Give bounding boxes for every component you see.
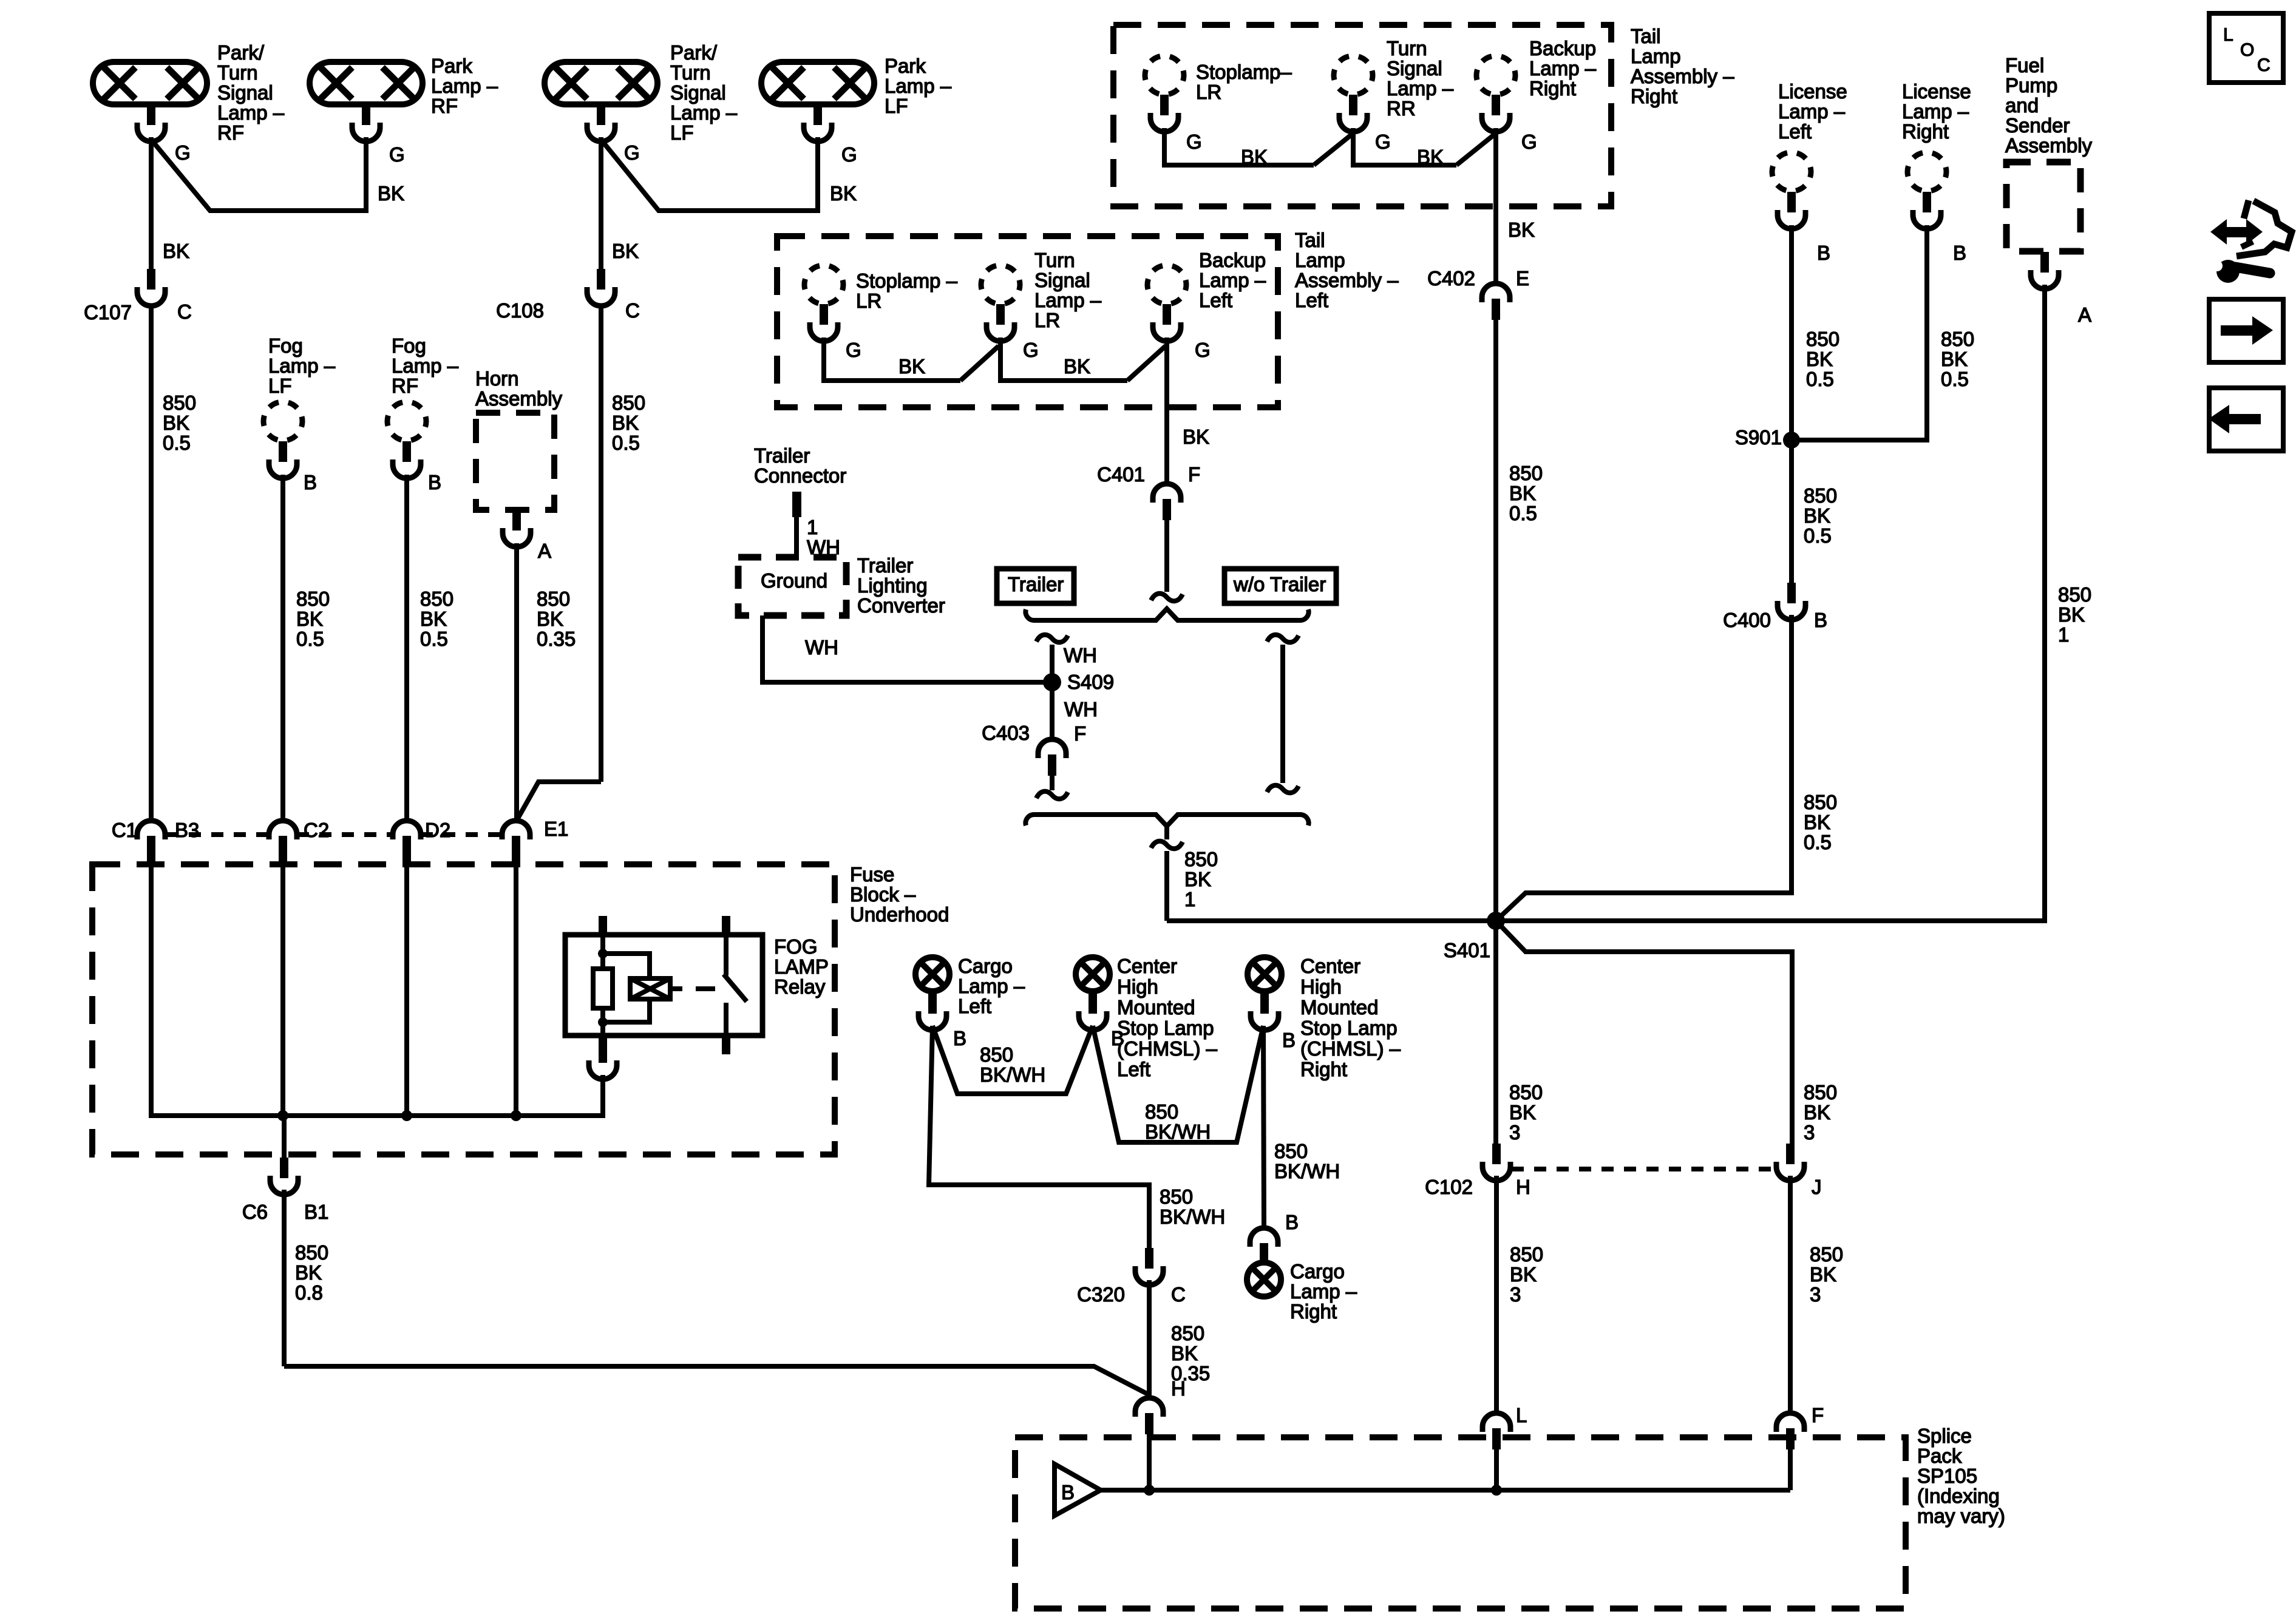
svg-text:BK: BK: [1064, 355, 1090, 378]
svg-text:G: G: [1023, 339, 1039, 361]
svg-text:G: G: [1195, 339, 1211, 361]
svg-text:BK: BK: [1184, 868, 1211, 890]
svg-text:B: B: [953, 1027, 966, 1049]
ground V cargo-left to CHMSL-left: [932, 1026, 1093, 1094]
svg-text:Lamp –: Lamp –: [670, 101, 738, 124]
svg-text:850: 850: [296, 588, 330, 610]
svg-text:Center: Center: [1117, 955, 1177, 977]
svg-text:0.5: 0.5: [420, 628, 448, 650]
w/o trailer option path: [1267, 635, 1299, 642]
svg-text:Assembly –: Assembly –: [1295, 269, 1399, 291]
wire license left to C400: [1789, 225, 1794, 584]
svg-text:L: L: [2223, 25, 2233, 45]
svg-text:LF: LF: [670, 121, 694, 144]
ground V CHMSL-left to CHMSL-right: [1093, 1026, 1263, 1142]
svg-text:0.5: 0.5: [296, 628, 324, 650]
svg-text:850: 850: [1509, 462, 1543, 484]
svg-text:BK/WH: BK/WH: [1274, 1160, 1340, 1182]
svg-text:BK: BK: [1804, 1101, 1830, 1124]
svg-text:Assembly: Assembly: [475, 387, 563, 410]
svg-text:Lamp –: Lamp –: [1199, 269, 1266, 291]
svg-text:BK: BK: [296, 608, 323, 630]
lamp Turn Signal Lamp LR: [981, 265, 1020, 304]
svg-text:0.8: 0.8: [295, 1281, 323, 1304]
svg-text:Tail: Tail: [1295, 229, 1325, 251]
svg-text:BK/WH: BK/WH: [1145, 1120, 1211, 1143]
svg-text:850: 850: [1810, 1243, 1843, 1266]
svg-text:F: F: [1188, 463, 1200, 486]
svg-text:Right: Right: [1290, 1300, 1337, 1323]
svg-text:WH: WH: [805, 636, 838, 659]
svg-text:Park/: Park/: [670, 41, 718, 64]
svg-text:BK: BK: [1941, 348, 1968, 370]
svg-text:BK: BK: [1509, 482, 1536, 504]
svg-text:Splice: Splice: [1917, 1425, 1972, 1447]
svg-text:E1: E1: [544, 818, 568, 840]
svg-text:Turn: Turn: [1034, 249, 1075, 271]
svg-text:0.5: 0.5: [612, 432, 640, 454]
wire fog LF to C2: [280, 475, 285, 821]
svg-text:Lamp –: Lamp –: [1387, 77, 1454, 100]
lamp: Park/Turn Signal Lamp LF: [545, 62, 657, 104]
svg-text:Mounted: Mounted: [1117, 996, 1195, 1019]
svg-text:850: 850: [1806, 328, 1839, 350]
svg-text:B: B: [1817, 242, 1830, 264]
svg-text:BK: BK: [1509, 1101, 1536, 1124]
wire lamp3-lamp4 ground jumper: [601, 137, 818, 211]
splice S409: [1043, 673, 1061, 691]
svg-text:RR: RR: [1387, 97, 1416, 120]
svg-text:Fuse: Fuse: [850, 863, 894, 886]
svg-text:850: 850: [295, 1241, 328, 1264]
wire C102 J to splice F: [1788, 1176, 1793, 1413]
svg-text:A: A: [2078, 303, 2091, 326]
svg-text:High: High: [1300, 975, 1342, 998]
svg-text:Park: Park: [885, 55, 926, 77]
svg-text:Lamp: Lamp: [1631, 45, 1681, 67]
svg-text:Mounted: Mounted: [1300, 996, 1378, 1019]
svg-text:B: B: [1111, 1027, 1124, 1049]
svg-text:C: C: [177, 300, 192, 323]
connector C1/B3: [137, 821, 165, 857]
svg-text:Block –: Block –: [850, 883, 916, 906]
svg-text:Underhood: Underhood: [850, 903, 949, 926]
svg-text:B: B: [1061, 1481, 1075, 1503]
relay coil circuit: [600, 935, 605, 969]
wire fog RF to D2: [404, 475, 409, 821]
connector L into splice pack: [1483, 1413, 1510, 1449]
svg-text:License: License: [1902, 80, 1971, 103]
svg-text:B: B: [1953, 242, 1966, 264]
S401 branch to C102 J: [1496, 921, 1792, 1144]
wire option bracket to S401 to fuel pump: [1167, 918, 2045, 923]
svg-text:BK: BK: [1810, 1263, 1836, 1286]
svg-text:Relay: Relay: [774, 975, 826, 998]
svg-text:850: 850: [1145, 1100, 1178, 1123]
svg-text:Lamp –: Lamp –: [217, 101, 285, 124]
svg-text:850: 850: [1510, 1243, 1543, 1266]
svg-text:0.5: 0.5: [1804, 524, 1832, 547]
svg-text:1: 1: [807, 516, 818, 538]
Horn Assembly dashed box: [476, 413, 554, 510]
svg-text:BK: BK: [163, 412, 189, 434]
svg-text:S401: S401: [1444, 939, 1490, 961]
svg-text:BK: BK: [2058, 603, 2085, 626]
svg-text:B: B: [304, 471, 317, 493]
svg-text:Center: Center: [1300, 955, 1360, 977]
connector C2: [269, 821, 297, 857]
svg-text:LR: LR: [856, 290, 881, 312]
wire C6 to splice H: [282, 1190, 287, 1366]
svg-text:Tail: Tail: [1631, 25, 1661, 47]
svg-text:850: 850: [1509, 1081, 1543, 1103]
trailer option path: [1036, 635, 1068, 642]
svg-text:BK: BK: [1806, 348, 1833, 370]
svg-text:Right: Right: [1902, 120, 1949, 143]
w/o Trailer option box: [1224, 569, 1336, 603]
splice S901: [1783, 432, 1800, 449]
svg-text:Lamp –: Lamp –: [885, 75, 952, 97]
svg-text:LAMP: LAMP: [774, 955, 829, 978]
wire lamp1-lamp2 ground jumper: [151, 137, 366, 211]
splice pack B terminal triangle: [1055, 1464, 1101, 1516]
svg-text:3: 3: [1804, 1121, 1815, 1144]
svg-text:BK: BK: [378, 182, 404, 205]
svg-text:C102: C102: [1425, 1176, 1473, 1198]
svg-text:Lamp –: Lamp –: [268, 354, 336, 377]
svg-text:Cargo: Cargo: [958, 955, 1013, 977]
svg-text:0.5: 0.5: [1806, 368, 1834, 390]
svg-text:C2: C2: [304, 819, 329, 841]
svg-text:C1: C1: [112, 819, 137, 841]
svg-text:850: 850: [1171, 1322, 1204, 1344]
Trailer option box: [997, 569, 1074, 603]
wire bracket to S401: [1151, 841, 1183, 849]
svg-text:850: 850: [1160, 1185, 1193, 1208]
svg-text:O: O: [2240, 40, 2254, 60]
wire license right to S901: [1792, 225, 1927, 440]
svg-text:Right: Right: [1300, 1058, 1347, 1080]
svg-text:and: and: [2005, 94, 2039, 117]
wire C102 H to splice L: [1494, 1176, 1499, 1413]
svg-text:Park/: Park/: [217, 41, 265, 64]
wire backup left to C401: [1164, 337, 1169, 484]
svg-text:Fog: Fog: [268, 334, 303, 357]
connector C402: [1482, 283, 1510, 320]
svg-text:(CHMSL) –: (CHMSL) –: [1300, 1037, 1401, 1060]
wire backup right to C402: [1493, 128, 1498, 283]
svg-text:F: F: [1074, 722, 1086, 745]
connector H into splice pack: [1135, 1398, 1163, 1434]
relay pins: [599, 916, 607, 935]
svg-text:3: 3: [1509, 1121, 1520, 1144]
svg-text:850: 850: [537, 588, 570, 610]
connector C320: [1135, 1248, 1163, 1285]
svg-text:Left: Left: [1199, 289, 1232, 311]
svg-text:Right: Right: [1529, 77, 1576, 100]
connector C108: [587, 269, 615, 306]
svg-text:Backup: Backup: [1529, 37, 1596, 59]
svg-text:850: 850: [2058, 583, 2091, 606]
connector E1: [502, 821, 530, 857]
lamp License Lamp Left: [1772, 152, 1811, 191]
connector C107: [137, 269, 165, 306]
connector C6/B1: [270, 1158, 298, 1195]
wire S401 to C102 H: [1493, 921, 1498, 1144]
lamp: Park Lamp LF: [761, 62, 874, 104]
splice S401: [1487, 912, 1505, 930]
svg-text:C: C: [625, 299, 640, 322]
wire C402 to S401: [1493, 320, 1498, 921]
splice pack bus: [1101, 1488, 1790, 1493]
svg-text:Fuel: Fuel: [2005, 54, 2044, 76]
svg-text:B: B: [1285, 1211, 1299, 1233]
svg-text:Stoplamp–: Stoplamp–: [1196, 61, 1292, 83]
svg-text:C107: C107: [84, 301, 132, 324]
svg-text:D2: D2: [425, 819, 450, 841]
svg-text:High: High: [1117, 975, 1158, 998]
svg-text:850: 850: [1941, 328, 1974, 350]
connector D2: [393, 821, 421, 857]
svg-text:G: G: [1186, 131, 1202, 153]
svg-text:Lamp –: Lamp –: [392, 354, 459, 377]
svg-text:BK: BK: [1171, 1342, 1198, 1364]
svg-text:may vary): may vary): [1917, 1505, 2005, 1527]
lamp CHMSL Right: [1248, 957, 1282, 991]
connector F into splice pack: [1776, 1413, 1804, 1449]
svg-text:LR: LR: [1196, 81, 1221, 103]
svg-text:Signal: Signal: [670, 81, 726, 104]
svg-text:Lamp: Lamp: [1295, 249, 1345, 271]
svg-text:E: E: [1516, 267, 1529, 290]
lamp Stoplamp LR (left): [804, 265, 843, 304]
svg-text:BK: BK: [1510, 1263, 1537, 1286]
svg-text:G: G: [1375, 131, 1391, 153]
svg-text:Assembly: Assembly: [2005, 134, 2093, 157]
svg-text:RF: RF: [431, 95, 458, 117]
svg-text:Trailer: Trailer: [857, 554, 913, 577]
svg-text:Turn: Turn: [217, 61, 258, 84]
svg-text:1: 1: [2058, 623, 2069, 646]
lamp: Fog Lamp LF: [263, 402, 302, 441]
svg-text:Right: Right: [1631, 85, 1677, 107]
svg-text:LF: LF: [268, 375, 292, 397]
svg-text:0.5: 0.5: [1941, 368, 1969, 390]
svg-text:Signal: Signal: [1034, 269, 1090, 291]
svg-text:G: G: [175, 141, 191, 164]
svg-text:850: 850: [1184, 848, 1218, 870]
svg-text:C400: C400: [1723, 609, 1771, 631]
svg-text:Connector: Connector: [754, 464, 846, 487]
svg-text:Ground: Ground: [761, 569, 827, 592]
lower option bracket: [1025, 815, 1308, 826]
lamp Stoplamp LR (right box): [1145, 56, 1184, 95]
Tail Lamp Assembly Right dashed box: [1113, 25, 1611, 206]
svg-text:SP105: SP105: [1917, 1465, 1977, 1487]
svg-text:C403: C403: [982, 722, 1030, 744]
svg-text:Lamp –: Lamp –: [958, 975, 1025, 997]
svg-text:G: G: [1521, 131, 1537, 153]
svg-text:850: 850: [163, 392, 196, 414]
svg-text:RF: RF: [217, 121, 244, 144]
svg-text:H: H: [1516, 1176, 1530, 1198]
lamp Turn Signal Lamp RR: [1334, 56, 1373, 95]
svg-text:BK: BK: [830, 182, 857, 205]
wire cargo-left down to C320: [929, 1026, 1149, 1248]
svg-text:F: F: [1812, 1404, 1824, 1426]
svg-text:B1: B1: [304, 1201, 328, 1223]
lamp: Fog Lamp RF: [387, 402, 426, 441]
svg-text:C: C: [1171, 1283, 1186, 1306]
svg-text:Lamp –: Lamp –: [431, 75, 498, 97]
relay coil box: [630, 978, 670, 999]
connector C102 J: [1776, 1144, 1804, 1181]
svg-text:3: 3: [1510, 1283, 1521, 1306]
svg-text:850: 850: [420, 588, 453, 610]
wire C401 down to option bracket: [1164, 520, 1169, 592]
svg-text:Signal: Signal: [217, 81, 273, 104]
svg-text:0.5: 0.5: [1804, 831, 1832, 853]
svg-text:0.5: 0.5: [1509, 502, 1537, 524]
service icon: double arrow with hand and wrench: [2210, 219, 2263, 245]
svg-text:WH: WH: [1064, 644, 1097, 666]
svg-text:C6: C6: [242, 1201, 268, 1223]
wire lamp1 to C107: [149, 137, 154, 269]
svg-text:Assembly –: Assembly –: [1631, 65, 1734, 87]
horn connector: [503, 510, 531, 547]
svg-text:Fog: Fog: [392, 334, 426, 357]
wire C107 to fuse block B3: [149, 305, 154, 821]
svg-text:BK: BK: [898, 355, 925, 378]
svg-text:Pack: Pack: [1917, 1445, 1962, 1467]
svg-text:BK: BK: [1804, 811, 1830, 833]
FOG LAMP Relay box: [565, 935, 763, 1036]
svg-text:Backup: Backup: [1199, 249, 1266, 271]
svg-text:BK/WH: BK/WH: [980, 1063, 1045, 1086]
svg-text:C108: C108: [496, 299, 544, 322]
svg-text:850: 850: [1804, 791, 1837, 813]
svg-text:LF: LF: [885, 95, 908, 117]
svg-text:850: 850: [1804, 484, 1837, 507]
Tail Lamp Assembly Left dashed box: [777, 236, 1278, 407]
svg-text:Cargo: Cargo: [1290, 1260, 1345, 1283]
svg-text:B: B: [1282, 1029, 1296, 1051]
relay switch: [724, 935, 729, 975]
svg-text:BK: BK: [1508, 219, 1535, 241]
lamp CHMSL Left: [1076, 957, 1110, 991]
svg-text:BK: BK: [1417, 146, 1444, 168]
wire lamp3 to C108: [599, 137, 603, 269]
relay output connector: [589, 1042, 617, 1079]
Trailer Lighting Converter Ground box: [738, 557, 846, 615]
svg-text:Turn: Turn: [670, 61, 711, 84]
svg-text:H: H: [1171, 1377, 1186, 1400]
svg-text:License: License: [1778, 80, 1847, 103]
svg-text:850: 850: [1804, 1081, 1837, 1103]
svg-text:BK: BK: [295, 1261, 322, 1284]
svg-text:S409: S409: [1067, 671, 1114, 693]
svg-text:3: 3: [1810, 1283, 1821, 1306]
svg-text:C320: C320: [1077, 1283, 1125, 1306]
wire CHMSL-right to cargo-right: [1263, 1026, 1264, 1228]
svg-text:850: 850: [612, 392, 645, 414]
svg-text:BK: BK: [163, 240, 189, 262]
svg-text:J: J: [1812, 1176, 1822, 1198]
wire C108 down with jog to E1: [599, 305, 603, 782]
svg-text:(CHMSL) –: (CHMSL) –: [1117, 1037, 1218, 1060]
svg-text:A: A: [538, 540, 551, 562]
LOC reference box: [2209, 13, 2283, 83]
wire horn to E1: [514, 543, 519, 821]
svg-text:Converter: Converter: [857, 594, 945, 617]
lamp License Lamp Right: [1907, 152, 1946, 191]
svg-text:B: B: [428, 471, 441, 493]
svg-text:B3: B3: [175, 819, 199, 841]
wire ground box to S409: [763, 615, 1050, 682]
relay dashed actuator link: [670, 986, 682, 991]
dotted tie line C102: [1512, 1167, 1776, 1171]
connector C102 H: [1483, 1144, 1510, 1181]
svg-text:850: 850: [1274, 1140, 1308, 1162]
svg-text:Pump: Pump: [2005, 74, 2057, 97]
svg-text:G: G: [846, 339, 861, 361]
ground chain left box: [824, 337, 960, 381]
svg-text:LR: LR: [1034, 309, 1060, 331]
lamp: Park Lamp RF: [310, 62, 423, 104]
Fuse Block Underhood dashed box: [92, 864, 835, 1154]
svg-text:BK: BK: [537, 608, 563, 630]
svg-text:G: G: [841, 143, 857, 166]
dotted tie line between fuse connectors: [166, 832, 269, 837]
Trailer Connector pin: [792, 492, 801, 517]
svg-text:B: B: [1814, 609, 1827, 631]
svg-text:L: L: [1516, 1404, 1527, 1426]
svg-text:Signal: Signal: [1387, 57, 1442, 80]
previous page arrow box: [2209, 388, 2283, 451]
connector C401: [1153, 484, 1181, 520]
svg-text:C402: C402: [1427, 267, 1475, 290]
next page arrow box: [2209, 299, 2283, 362]
lamp Backup Lamp Right: [1476, 56, 1515, 95]
svg-text:BK: BK: [1241, 146, 1268, 168]
svg-text:Lamp –: Lamp –: [1290, 1280, 1357, 1303]
fuel pump riser: [2042, 285, 2047, 923]
svg-text:RF: RF: [392, 375, 418, 397]
svg-text:1: 1: [1184, 888, 1195, 910]
lamp: Park/Turn Signal Lamp RF: [93, 62, 207, 104]
svg-text:Left: Left: [1117, 1058, 1150, 1080]
svg-text:Lamp –: Lamp –: [1529, 57, 1597, 80]
svg-text:Left: Left: [958, 995, 991, 1017]
svg-text:Stop Lamp: Stop Lamp: [1300, 1017, 1398, 1039]
connector C400: [1778, 583, 1805, 620]
svg-text:FOG: FOG: [774, 935, 818, 958]
svg-text:Lamp –: Lamp –: [1034, 289, 1102, 311]
svg-text:BK: BK: [612, 240, 639, 262]
svg-text:WH: WH: [1064, 698, 1098, 720]
connector C403: [1038, 739, 1066, 776]
wire C320 to splice H: [1147, 1280, 1152, 1398]
svg-text:Lamp –: Lamp –: [1778, 100, 1846, 123]
svg-text:Turn: Turn: [1387, 37, 1427, 59]
svg-text:Sender: Sender: [2005, 114, 2070, 137]
svg-text:Lighting: Lighting: [857, 574, 928, 597]
svg-text:0.35: 0.35: [537, 628, 576, 650]
lamp Cargo Lamp Right (inverted): [1250, 1228, 1278, 1264]
svg-text:Stop Lamp: Stop Lamp: [1117, 1017, 1214, 1039]
svg-text:Park: Park: [431, 55, 472, 77]
svg-text:Trailer: Trailer: [1008, 573, 1064, 595]
